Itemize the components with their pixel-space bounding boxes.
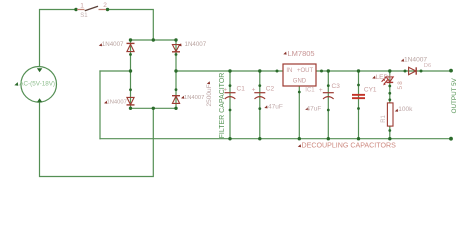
svg-text:47uF: 47uF bbox=[306, 105, 321, 112]
svg-text:+OUT: +OUT bbox=[297, 68, 314, 74]
svg-text:2: 2 bbox=[103, 2, 107, 9]
svg-text:GND: GND bbox=[293, 78, 307, 84]
svg-text:58: 58 bbox=[397, 80, 404, 89]
svg-text:C2: C2 bbox=[266, 86, 275, 93]
svg-text:1: 1 bbox=[80, 3, 84, 10]
svg-text:+: + bbox=[252, 87, 256, 94]
svg-text:R1: R1 bbox=[381, 114, 387, 122]
svg-text:2500uF: 2500uF bbox=[206, 84, 213, 106]
svg-text:1N4007: 1N4007 bbox=[185, 41, 207, 48]
svg-text:+: + bbox=[319, 87, 323, 94]
svg-text:FILTER CAPACITOR: FILTER CAPACITOR bbox=[219, 73, 226, 139]
svg-text:C1: C1 bbox=[237, 86, 246, 93]
svg-text:C3: C3 bbox=[332, 83, 341, 90]
svg-text:1N4007: 1N4007 bbox=[184, 95, 204, 101]
svg-text:LM7805: LM7805 bbox=[288, 49, 315, 58]
svg-text:1N4007: 1N4007 bbox=[102, 41, 124, 48]
svg-text:100k: 100k bbox=[398, 106, 413, 113]
svg-text:IC1: IC1 bbox=[305, 87, 315, 93]
svg-text:D6: D6 bbox=[424, 63, 431, 69]
svg-text:CY1: CY1 bbox=[364, 86, 377, 93]
svg-text:47uF: 47uF bbox=[268, 104, 283, 111]
svg-text:S1: S1 bbox=[80, 13, 88, 19]
svg-text:LED1: LED1 bbox=[376, 74, 393, 81]
svg-text:IN: IN bbox=[286, 68, 292, 74]
svg-text:DECOUPLING CAPACITORS: DECOUPLING CAPACITORS bbox=[302, 141, 397, 149]
svg-text:AC-(5V-18V): AC-(5V-18V) bbox=[19, 80, 55, 87]
svg-text:OUTPUT 5V: OUTPUT 5V bbox=[451, 77, 458, 113]
svg-text:1N4007: 1N4007 bbox=[107, 100, 127, 106]
